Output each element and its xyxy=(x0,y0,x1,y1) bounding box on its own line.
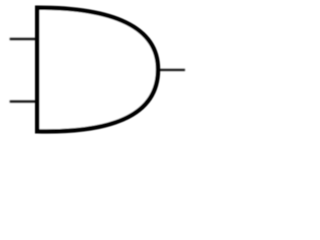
input wire B (bottom) xyxy=(10,100,37,102)
output wire xyxy=(159,69,186,71)
input wire A (top) xyxy=(10,38,37,40)
AND gate body U1 xyxy=(37,8,158,132)
